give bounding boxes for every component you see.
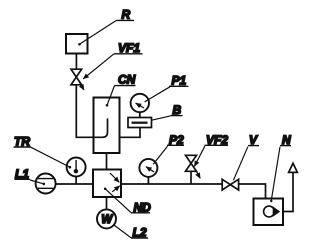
component CN <box>94 98 120 154</box>
flow meter L1 <box>36 174 56 194</box>
valve VF1 <box>71 69 82 85</box>
label L1 <box>15 167 46 185</box>
gauge P2 <box>139 159 157 184</box>
reservoir R <box>66 34 88 54</box>
valve VF2 <box>186 155 197 184</box>
label CN <box>106 73 136 107</box>
svg-text:VF1: VF1 <box>118 41 140 55</box>
label P1 <box>145 74 189 102</box>
label TR <box>14 135 72 169</box>
svg-text:N: N <box>282 133 291 147</box>
component B <box>120 118 152 138</box>
pump N <box>254 199 284 226</box>
meter L2 (W) <box>97 197 116 228</box>
label ND <box>104 188 151 215</box>
label L2 <box>114 225 148 240</box>
wire VF1 to CN inlet <box>76 85 93 138</box>
label R <box>78 8 134 46</box>
svg-text:P1: P1 <box>172 74 187 88</box>
vent arrow at VF1 <box>80 83 84 90</box>
wire CN to ND <box>106 153 108 170</box>
label VF1 <box>83 41 142 79</box>
indicator TR <box>67 158 86 185</box>
svg-text:R: R <box>122 8 131 22</box>
wire main pipe right <box>121 183 222 185</box>
wire R to VF1 <box>75 54 77 69</box>
label VF2 <box>194 133 228 166</box>
wire V to N box <box>239 184 266 199</box>
label P2 <box>153 133 184 164</box>
svg-text:V: V <box>249 133 258 147</box>
label V <box>233 133 259 180</box>
svg-text:CN: CN <box>118 73 136 87</box>
svg-text:W: W <box>101 214 113 226</box>
wire main pipe left <box>56 183 93 185</box>
vent arrow at VF2 <box>195 170 200 179</box>
gauge P1 <box>131 94 149 118</box>
label B <box>152 103 183 120</box>
block ND <box>93 170 121 198</box>
label N <box>270 133 291 202</box>
valve V <box>222 179 238 190</box>
vent line with arrow <box>283 163 297 211</box>
